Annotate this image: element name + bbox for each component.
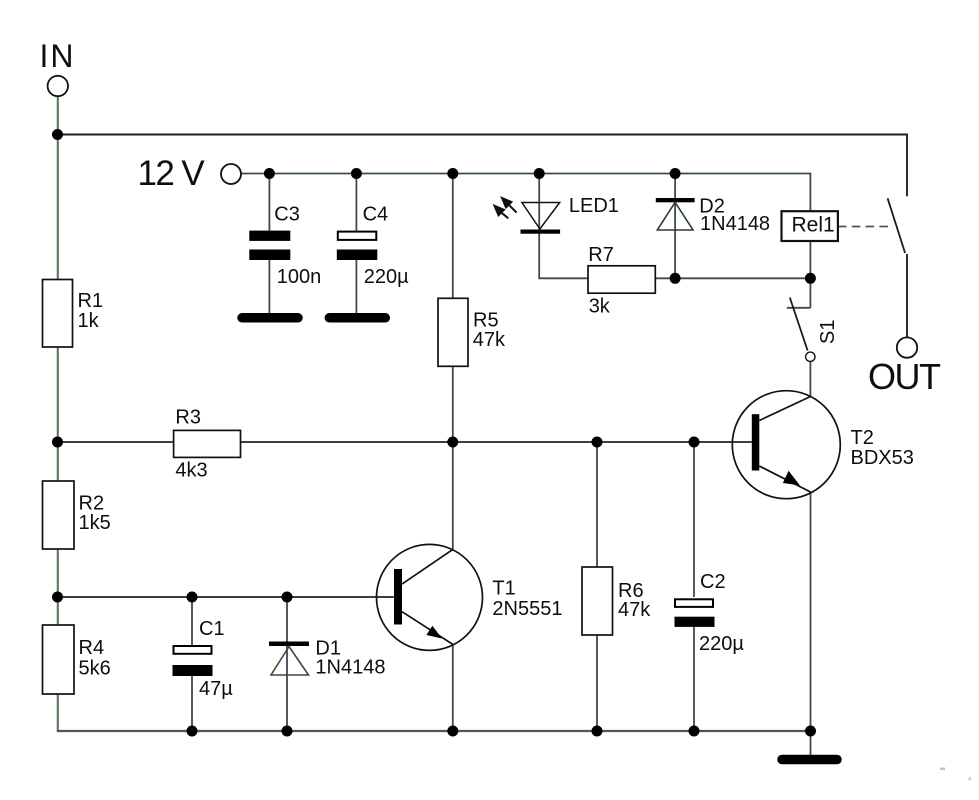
svg-text:Rel1: Rel1 [792,214,835,237]
svg-text:R4: R4 [79,637,105,659]
svg-text:S1: S1 [817,320,839,344]
svg-text:BDX53: BDX53 [851,447,914,469]
svg-text:220µ: 220µ [364,266,409,288]
svg-text:220µ: 220µ [699,633,744,655]
svg-text:5k6: 5k6 [79,658,111,680]
svg-text:LED1: LED1 [569,195,619,217]
svg-text:R3: R3 [175,406,201,428]
svg-text:1N4148: 1N4148 [700,213,770,235]
svg-text:47k: 47k [618,599,651,621]
svg-text:2N5551: 2N5551 [492,598,562,620]
svg-text:1k: 1k [78,310,100,332]
svg-text:IN: IN [40,38,76,74]
svg-text:C1: C1 [199,618,225,640]
svg-text:C4: C4 [363,204,389,226]
svg-text:R7: R7 [588,244,614,266]
svg-text:47k: 47k [473,329,506,351]
svg-text:T1: T1 [492,577,515,599]
svg-text:4k3: 4k3 [175,460,207,482]
svg-text:T2: T2 [851,427,874,449]
svg-text:C3: C3 [274,204,300,226]
svg-text:47µ: 47µ [199,678,233,700]
svg-text:100n: 100n [277,266,322,288]
svg-text:3k: 3k [589,296,611,318]
svg-text:1N4148: 1N4148 [315,657,385,679]
svg-text:C2: C2 [700,571,726,593]
svg-text:1k5: 1k5 [79,512,111,534]
svg-text:OUT: OUT [868,356,941,397]
svg-text:R1: R1 [78,290,104,312]
svg-text:12 V: 12 V [138,154,206,193]
